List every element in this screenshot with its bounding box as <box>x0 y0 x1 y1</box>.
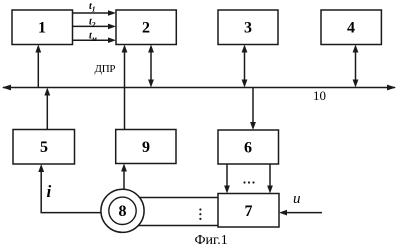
svg-text:4: 4 <box>347 20 355 37</box>
svg-text:t1: t1 <box>89 1 96 14</box>
svg-text:8: 8 <box>119 203 127 220</box>
svg-text:3: 3 <box>244 20 252 37</box>
svg-text:t2: t2 <box>89 16 96 29</box>
svg-text:5: 5 <box>40 139 48 156</box>
svg-text:u: u <box>293 191 301 207</box>
svg-text:9: 9 <box>142 139 150 156</box>
svg-text:7: 7 <box>245 203 253 220</box>
svg-text:i: i <box>47 182 52 201</box>
svg-text:Фиг.1: Фиг.1 <box>195 233 228 248</box>
svg-text:tм: tм <box>89 30 97 43</box>
svg-text:2: 2 <box>142 20 150 37</box>
svg-text:1: 1 <box>38 20 46 37</box>
svg-text:6: 6 <box>244 140 252 157</box>
svg-text:10: 10 <box>313 88 326 103</box>
svg-text:ДПР: ДПР <box>95 63 116 75</box>
